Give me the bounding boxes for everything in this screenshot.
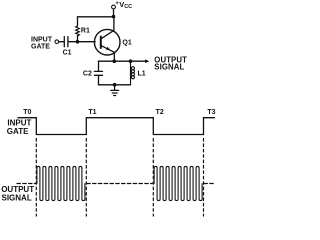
svg-text:L1: L1 bbox=[138, 70, 146, 77]
wire VCC vertical bbox=[113, 9, 115, 17]
svg-text:SIGNAL: SIGNAL bbox=[2, 194, 32, 203]
output burst 1 bbox=[37, 166, 85, 200]
svg-text:T1: T1 bbox=[88, 109, 96, 116]
svg-text:Q1: Q1 bbox=[122, 40, 131, 47]
label VCC bbox=[115, 0, 132, 10]
node base junction bbox=[76, 40, 80, 44]
node L1 junction bbox=[129, 59, 133, 63]
svg-text:SIGNAL: SIGNAL bbox=[154, 63, 184, 72]
label OUTPUT SIGNAL timing bbox=[1, 185, 34, 203]
svg-text:CC: CC bbox=[124, 4, 132, 10]
wire top horizontal bbox=[78, 17, 114, 26]
svg-text:C2: C2 bbox=[83, 71, 92, 78]
VCC terminal bbox=[112, 5, 116, 9]
transistor Q1 bbox=[94, 29, 120, 55]
svg-text:GATE: GATE bbox=[31, 43, 50, 50]
wire input bbox=[59, 41, 65, 43]
capacitor C1 bbox=[64, 37, 68, 47]
svg-text:T3: T3 bbox=[207, 109, 215, 116]
node VCC junction bbox=[112, 15, 116, 19]
node ground junction bbox=[113, 83, 117, 87]
inductor L1 bbox=[131, 61, 135, 85]
output burst 2 bbox=[154, 166, 202, 200]
input terminal bbox=[55, 40, 59, 44]
dashed line T0 bbox=[35, 139, 37, 217]
wire emitter bbox=[113, 52, 115, 61]
ground bbox=[111, 85, 119, 96]
wire collector bbox=[113, 17, 115, 31]
wire tank bottom bbox=[99, 84, 131, 86]
svg-text:T0: T0 bbox=[23, 109, 31, 116]
wire tank top bbox=[99, 60, 147, 62]
output arrow bbox=[145, 59, 149, 63]
capacitor C2 bbox=[94, 61, 102, 85]
label OUTPUT SIGNAL bbox=[154, 56, 187, 72]
wire base bbox=[68, 41, 95, 43]
dashed line T3 bbox=[203, 139, 205, 217]
svg-text:GATE: GATE bbox=[7, 127, 29, 136]
label INPUT GATE bbox=[31, 37, 53, 51]
svg-text:OUTPUT: OUTPUT bbox=[1, 185, 34, 194]
svg-text:T2: T2 bbox=[156, 109, 164, 116]
output baseline dashes left bbox=[17, 183, 36, 185]
dashed line T1 bbox=[85, 139, 87, 217]
output baseline dashes right bbox=[204, 183, 216, 185]
node emitter junction bbox=[113, 59, 117, 63]
input gate waveform bbox=[18, 118, 215, 135]
svg-text:R1: R1 bbox=[81, 27, 90, 34]
svg-text:C1: C1 bbox=[63, 50, 72, 57]
resistor R1 bbox=[76, 26, 80, 36]
wire R1 bottom lead bbox=[77, 36, 79, 42]
dashed line T2 bbox=[152, 139, 154, 217]
label INPUT GATE timing bbox=[7, 119, 32, 137]
output baseline dashes middle bbox=[87, 183, 153, 185]
